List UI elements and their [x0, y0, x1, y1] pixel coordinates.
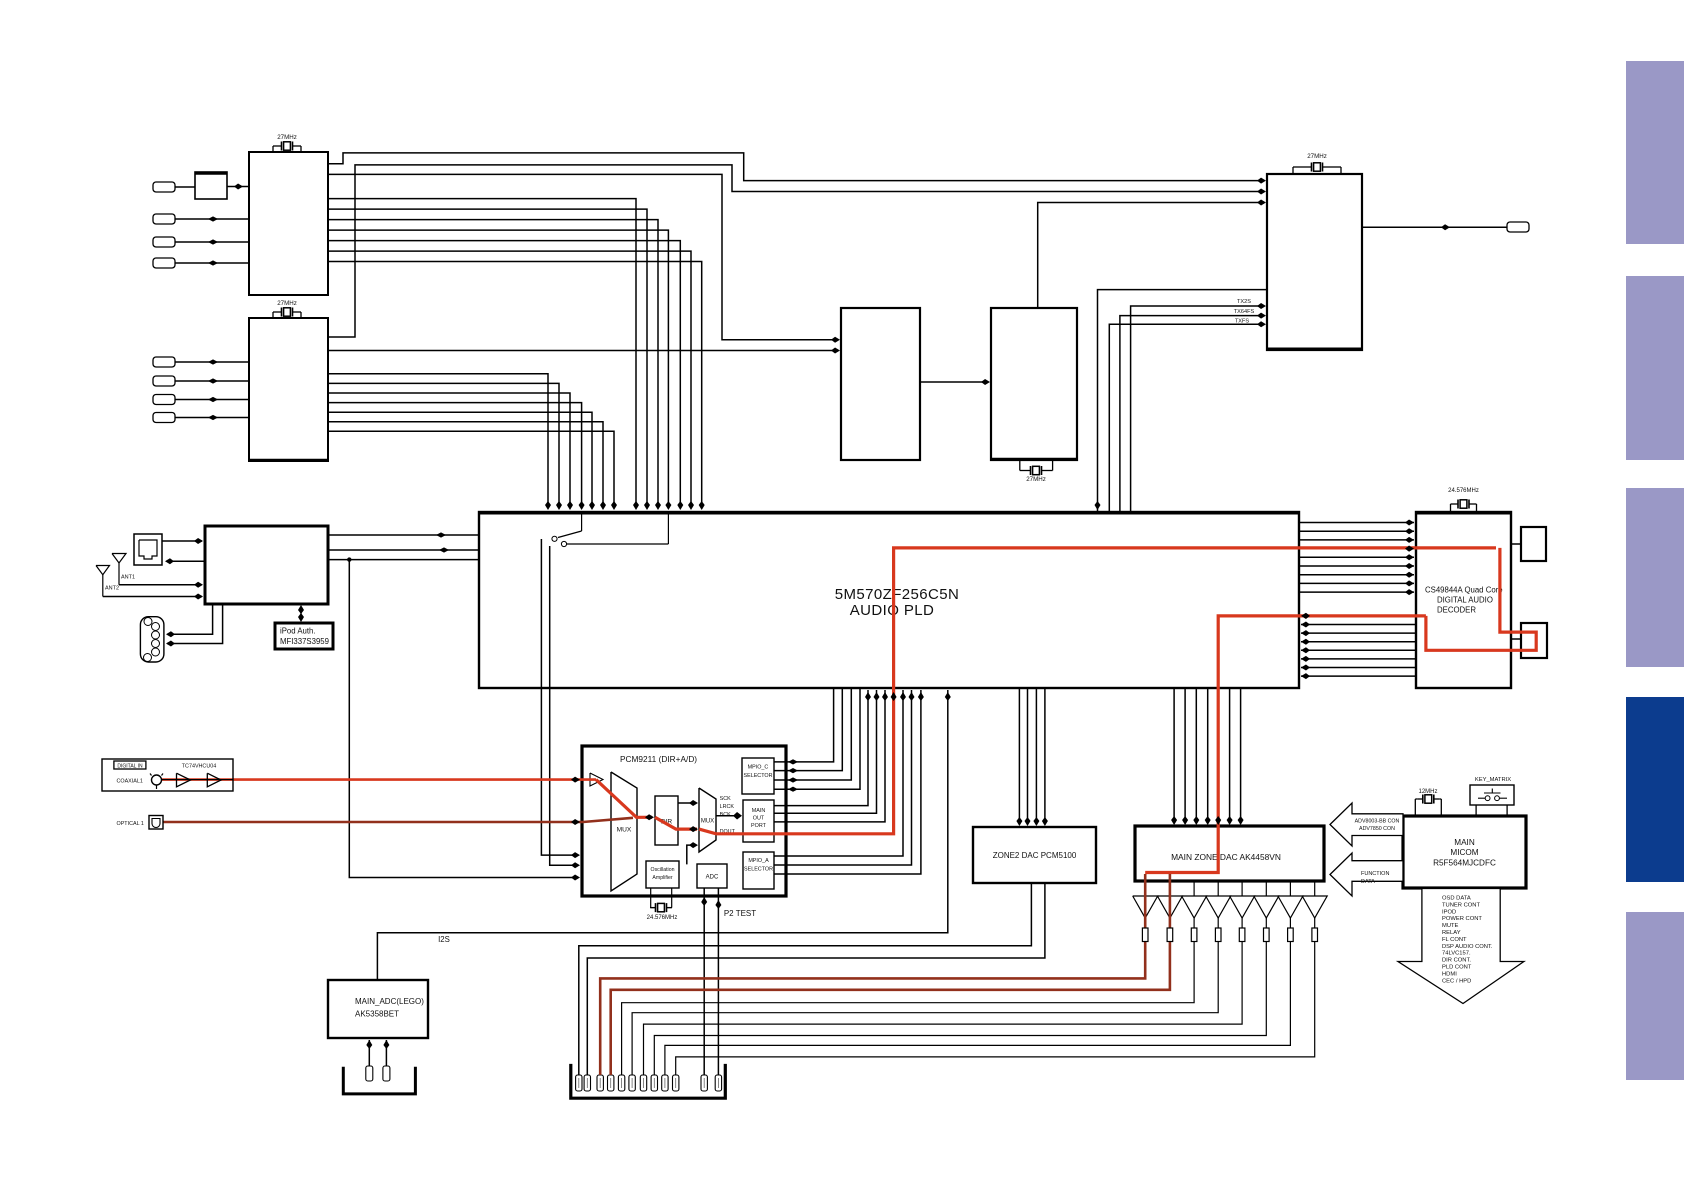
wire bus-A line 4 [328, 230, 671, 510]
wire PLD to AK4458 line 3 [1193, 688, 1199, 825]
svg-text:DATA: DATA [1361, 879, 1375, 885]
sidebar tab 2 [1626, 276, 1684, 460]
svg-text:MUX: MUX [701, 819, 714, 825]
wire J2 to U-A [175, 216, 249, 221]
label MFI337S3959 [280, 637, 329, 646]
arrow into PCM9211 coax [571, 777, 580, 783]
svg-text:MAIN_ADC(LEGO): MAIN_ADC(LEGO) [355, 997, 424, 1006]
wire U-C to DIN pin2 [166, 604, 213, 637]
wire J3 to U-A [175, 239, 249, 244]
sidebar tab 5 [1626, 912, 1684, 1080]
wire ADC input R [383, 1040, 389, 1068]
svg-text:ANT1: ANT1 [121, 575, 135, 581]
aux box1 right of CS [1521, 527, 1546, 561]
svg-text:SELECTOR: SELECTOR [744, 773, 773, 779]
svg-text:I2S: I2S [438, 935, 450, 944]
svg-text:MPIO_A: MPIO_A [748, 858, 769, 864]
label COAXIAL1 [117, 779, 143, 785]
wire bus-B line 1 [328, 374, 551, 510]
svg-text:27MHz: 27MHz [277, 134, 297, 141]
svg-text:iPod Auth.: iPod Auth. [280, 627, 316, 636]
buffer B1 [177, 773, 191, 787]
MPIO_C SELECTOR box [742, 758, 774, 794]
svg-text:PCM9211 (DIR+A/D): PCM9211 (DIR+A/D) [620, 754, 697, 764]
wire DIR to MUX2 [678, 800, 698, 806]
svg-text:OPTICAL 1: OPTICAL 1 [117, 821, 144, 827]
label DIR [661, 819, 673, 826]
wire CS to PLD line 6 [1301, 656, 1416, 662]
arrowhead red DOUT at PLD bottom [891, 692, 897, 701]
connector pin 3 [597, 1075, 603, 1091]
connector pin 10 [673, 1075, 679, 1091]
red wire DIR to MUX2 [655, 817, 698, 832]
DSP U-CS CS49844A [1415, 512, 1512, 688]
wire PLD to CS line 9 [1299, 589, 1414, 595]
wire MPIO_C line 3 [774, 688, 851, 783]
svg-text:ANT2: ANT2 [105, 586, 119, 592]
connector pin 6 [629, 1075, 635, 1091]
label Oscillation Amplifier [651, 867, 675, 881]
wire MPIO_A line 3 [774, 690, 924, 874]
label DECODER [1437, 606, 1476, 615]
svg-text:AK5358BET: AK5358BET [355, 1010, 399, 1019]
svg-text:PORT: PORT [751, 823, 767, 829]
svg-text:24.576MHz: 24.576MHz [1448, 488, 1479, 494]
wire bus-A line 5 [328, 241, 683, 510]
wire U-C to PLD b [328, 547, 479, 552]
wire bus-A line 2 [328, 209, 650, 510]
red wire DOUT to CS49844A [699, 548, 1496, 834]
wire U-A pin1 to U-F [328, 153, 1266, 184]
wire bus-B line 5 [328, 412, 595, 510]
wire J6 to U-B [175, 378, 249, 383]
label ZONE2 DAC PCM5100 [993, 851, 1077, 860]
svg-text:R5F564MJCDFC: R5F564MJCDFC [1433, 859, 1496, 868]
red wire CS loop to aux box2 [1426, 548, 1536, 650]
ADC pin label L [366, 1066, 373, 1081]
DIGITAL IN label box [114, 761, 146, 769]
black core of coax line [161, 779, 233, 781]
label I2S [438, 935, 450, 944]
svg-text:CS49844A Quad Core: CS49844A Quad Core [1425, 586, 1503, 595]
wire U-F output to stub [1362, 224, 1507, 230]
level shifter box [195, 172, 227, 199]
label DIGITAL AUDIO [1437, 596, 1493, 605]
svg-text:OSD DATA: OSD DATA [1442, 896, 1471, 902]
wire U-F pin to PLD [1095, 290, 1268, 548]
svg-text:COAXIAL1: COAXIAL1 [117, 779, 143, 785]
connector stub J7 [153, 395, 175, 405]
wire bus-B line 6 [328, 422, 606, 510]
svg-text:MUTE: MUTE [1442, 923, 1459, 929]
wire MAIN OUT line 2 [774, 690, 880, 813]
MUX2 trapezoid [699, 788, 716, 852]
block U-C (network module) [205, 526, 328, 604]
wire ADC pin1 down [701, 888, 707, 1075]
connector stub J2 [153, 214, 175, 224]
connector pin 7 [640, 1075, 646, 1091]
wire PLD to ZONE2 line 3 [1033, 688, 1039, 826]
connector stub J9 (top right) [1507, 222, 1529, 232]
connector pin 1 [576, 1075, 582, 1091]
crystal X6 24.576MHz below PCM9211 [647, 888, 678, 921]
svg-text:FL CONT: FL CONT [1442, 937, 1467, 943]
label CS49844A Quad Core [1425, 586, 1503, 595]
wire PLD to AK4458 line 1 [1171, 688, 1177, 825]
output buffer chain 5 [644, 881, 1255, 1075]
connector stub J6 [153, 376, 175, 386]
crystal X1 27MHz [273, 134, 301, 152]
svg-text:SCK: SCK [720, 796, 731, 802]
label MAIN OUT PORT [751, 808, 767, 829]
wire MPIO_A line 1 [774, 690, 906, 856]
buffer inside PCM9211 [590, 773, 603, 786]
label MAIN_ADC(LEGO) [355, 997, 424, 1006]
resistor on buffer chain 2 [1167, 928, 1173, 942]
svg-text:MFI337S3959: MFI337S3959 [280, 637, 329, 646]
wire PLD to ZONE2 line 2 [1025, 688, 1031, 826]
wire CS to PLD line 4 [1301, 639, 1416, 645]
bottom connector housing [571, 1064, 726, 1098]
MICOM down arrow [1398, 889, 1524, 1004]
wire J8 to U-B [175, 415, 249, 420]
svg-text:HDMI: HDMI [1442, 971, 1457, 977]
wire bus-A line 7 [328, 262, 705, 511]
label DATA [1361, 879, 1375, 885]
arrowhead red line into AK4458 [1215, 816, 1221, 825]
wire U-B pin2 to U-D [328, 348, 840, 354]
MAIN_ADC connector bracket [343, 1067, 415, 1094]
svg-text:MUX: MUX [617, 827, 632, 834]
sidebar tab 3 [1626, 488, 1684, 667]
output buffer chain 7 [665, 881, 1303, 1075]
wire PLD to AK4458 line 2 [1182, 688, 1188, 825]
svg-text:24.576MHz: 24.576MHz [647, 915, 678, 921]
wire U-A pin2 to U-D [328, 174, 840, 342]
svg-text:MAIN: MAIN [752, 808, 766, 814]
KEY_MATRIX box [1470, 777, 1514, 805]
connector pin 8 [651, 1075, 657, 1091]
antenna ANT2 [96, 566, 119, 597]
wire PLD to ZONE2 line 1 [1016, 688, 1022, 826]
wire ADC to MUX2 [687, 842, 698, 864]
svg-text:DECODER: DECODER [1437, 606, 1476, 615]
FUNCTION DATA block arrow [1330, 853, 1403, 896]
connector stub J8 [153, 413, 175, 423]
label TX64FS [1234, 309, 1255, 315]
red wire CS out to AK4458 [1145, 616, 1426, 873]
output buffer chain 8 [676, 881, 1327, 1075]
connector stub J1 [153, 182, 175, 192]
svg-text:ADV8003-BB CON: ADV8003-BB CON [1355, 819, 1400, 825]
crystal X7 12MHz [1415, 789, 1441, 816]
label iPod Auth [280, 627, 316, 636]
svg-text:27MHz: 27MHz [277, 300, 297, 307]
wire RJ45 to U-C [162, 538, 203, 544]
wire CS to PLD line 5 [1301, 647, 1416, 653]
svg-text:Oscillation: Oscillation [651, 867, 675, 873]
block U-B (second receiver) [248, 318, 329, 461]
wire U-C to DIN pin3 [166, 604, 223, 647]
label MPIO_A SELECTOR [744, 858, 773, 873]
label MPIO_C SELECTOR [744, 765, 773, 780]
wire ANT1 to U-C [119, 582, 203, 588]
svg-text:CEC / HPD: CEC / HPD [1442, 978, 1471, 984]
connector stub J4 [153, 258, 175, 268]
svg-text:IPOD: IPOD [1442, 909, 1456, 915]
svg-text:ZONE2 DAC PCM5100: ZONE2 DAC PCM5100 [993, 851, 1077, 860]
svg-text:TX2S: TX2S [1237, 299, 1251, 305]
svg-text:DIR CONT.: DIR CONT. [1442, 958, 1471, 964]
connector pin 2 [584, 1075, 590, 1091]
wire U-E to U-F clock [1038, 200, 1266, 309]
svg-text:PLD CONT: PLD CONT [1442, 965, 1472, 971]
svg-text:TX64FS: TX64FS [1234, 309, 1255, 315]
svg-text:12MHz: 12MHz [1418, 789, 1437, 795]
RJ45 jack [134, 534, 162, 565]
label PCM9211 (DIR+A/D) [620, 754, 697, 764]
PLD input switch S1 [552, 513, 669, 547]
label AK5358BET [355, 1010, 399, 1019]
ADC box [697, 864, 727, 888]
svg-text:ADC: ADC [706, 875, 719, 881]
wire bus-B line 7 [328, 431, 617, 510]
svg-text:Amplifier: Amplifier [652, 875, 672, 881]
MAIN_ADC block AK5358BET [328, 980, 428, 1038]
wire MAIN OUT line 3 [774, 690, 888, 822]
wire PLD to PCM9211 in2 [550, 546, 580, 868]
wire bus-A line 1 [328, 199, 639, 510]
label MUX1 [617, 827, 632, 834]
wire bus-B line 3 [328, 393, 573, 510]
label P2 TEST [724, 909, 756, 918]
label R5F564MJCDFC [1433, 859, 1496, 868]
wire MPIO_C line 1 [774, 688, 834, 765]
label MAIN [1454, 838, 1475, 847]
antenna ANT1 [112, 554, 135, 585]
svg-text:SELECTOR: SELECTOR [744, 867, 773, 873]
svg-text:POWER CONT: POWER CONT [1442, 916, 1482, 922]
connector pin 9 [662, 1075, 668, 1091]
wire J5 to U-B [175, 359, 249, 364]
wire ZONE2 out2 to connector [587, 883, 1045, 1075]
label MUX2 [701, 819, 714, 825]
PLD U-MAIN 5M570ZF256C5N [478, 512, 1300, 688]
svg-text:MAIN ZONE DAC AK4458VN: MAIN ZONE DAC AK4458VN [1171, 852, 1281, 862]
label ADV7850 CON [1359, 826, 1395, 832]
svg-text:RELAY: RELAY [1442, 930, 1461, 936]
wire bus-A line 3 [328, 220, 661, 510]
wire J7 to U-B [175, 397, 249, 402]
key switch symbol [1478, 789, 1507, 801]
wire bus-B line 2 [328, 383, 562, 510]
wire CS to PLD line 7 [1301, 665, 1416, 671]
wire PLD to CS line 2 [1299, 528, 1414, 534]
DIGITAL IN group box [102, 759, 233, 791]
aux box2 right of CS [1521, 623, 1547, 658]
arrowhead red line into CS [1405, 546, 1414, 552]
arrow into PCM9211 optical [571, 819, 580, 825]
wire ADC pin2 down [715, 888, 721, 1075]
label TX2S [1237, 299, 1251, 305]
label MICOM [1450, 848, 1478, 857]
dark red wire connector to buffer2 [611, 874, 1170, 1075]
crystal X3 27MHz below U-E [1020, 460, 1053, 483]
ADV8003 block arrow [1330, 803, 1403, 846]
label DOUT [720, 829, 736, 835]
MAIN MICOM block [1403, 816, 1526, 888]
svg-text:P2 TEST: P2 TEST [724, 909, 756, 918]
wire PLD to PCM9211 in1 [541, 539, 580, 858]
svg-text:74LVC157.: 74LVC157. [1442, 951, 1471, 957]
svg-text:OUT: OUT [753, 816, 765, 822]
wire U-C to PLD a [328, 532, 479, 537]
label ADC [706, 875, 719, 881]
label OPTICAL 1 [117, 821, 144, 827]
block U-D (HDMI switch) [841, 308, 920, 460]
MICOM signal list [1442, 896, 1493, 985]
wire MAIN OUT line 1 [774, 690, 871, 806]
wire PLD to AK4458 line 4 [1205, 688, 1211, 825]
wire PLD to ZONE2 line 4 [1042, 688, 1048, 826]
wire bus-A line 6 [328, 251, 694, 510]
wire I2S MAIN_ADC to PLD [377, 690, 950, 980]
wire PLD to CS line 7 [1299, 572, 1414, 578]
wire CS to aux box1 [1511, 543, 1521, 545]
svg-text:ADV7850 CON: ADV7850 CON [1359, 826, 1395, 832]
wire U-D to U-E [920, 379, 990, 385]
wire U-C to RJ45 [165, 558, 205, 564]
sidebar tab 1 [1626, 61, 1684, 244]
crystal X5 24.576MHz [1448, 488, 1479, 512]
svg-text:5M570ZF256C5N: 5M570ZF256C5N [835, 586, 959, 603]
red wire coax to DIR/MUX [596, 780, 654, 821]
crystal X2 27MHz [273, 300, 301, 318]
connector pin 11 [701, 1075, 707, 1091]
block U-F (audio transmitter) [1266, 174, 1363, 350]
connector pin 4 [608, 1075, 614, 1091]
TOSLINK jack [149, 816, 163, 830]
output buffer chain 4 [632, 881, 1231, 1075]
wire PLD to CS line 5 [1299, 554, 1414, 560]
label SCK LRCK BCK [720, 796, 735, 818]
svg-text:FUNCTION: FUNCTION [1361, 871, 1389, 877]
label TC74VHCU04 [182, 763, 216, 769]
ADC pin label R [383, 1066, 390, 1081]
wire TX2S PLD to U-F [1131, 303, 1266, 511]
svg-text:MAIN: MAIN [1454, 838, 1475, 847]
block U-E (video processor) [990, 308, 1078, 460]
wire keymatrix right [1506, 805, 1508, 816]
label ADV8003-BB CON [1355, 819, 1400, 825]
wire MPIO_A line 2 [774, 690, 915, 865]
wire CS to PLD line 3 [1301, 630, 1416, 636]
connector pin 12 [715, 1075, 721, 1091]
sidebar tab 4 (active) [1626, 697, 1684, 882]
output buffer chain 3 [622, 881, 1207, 1075]
wire MPIO_C line 4 [774, 688, 860, 792]
buffer B2 [207, 773, 221, 787]
svg-text:LRCK: LRCK [720, 804, 735, 810]
wire J1 to level box [175, 186, 195, 188]
wire U-C to iPod bidirectional [298, 605, 304, 622]
svg-text:DIGITAL IN: DIGITAL IN [117, 763, 143, 769]
wire ANT2 to U-C [103, 594, 203, 600]
wire TXFS PLD to U-F [1109, 321, 1266, 511]
svg-text:DIGITAL AUDIO: DIGITAL AUDIO [1437, 596, 1493, 605]
resistor on buffer chain 1 [1142, 928, 1148, 942]
PCM9211 U-P (DIR+A/D) [582, 746, 786, 896]
MAIN OUT PORT box [743, 800, 774, 842]
svg-text:27MHz: 27MHz [1026, 476, 1046, 483]
wire PLD to AK4458 line 5 [1227, 688, 1233, 825]
ZONE2 DAC PCM5100 block [973, 827, 1096, 883]
block U-A (top-left receiver) [249, 152, 328, 295]
connector pin 5 [618, 1075, 624, 1091]
label 5M570ZF256C5N [835, 586, 959, 603]
wire ZONE2 out1 to connector [579, 883, 1032, 1075]
red wire coaxial feed [161, 778, 596, 781]
svg-text:DSP AUDIO CONT.: DSP AUDIO CONT. [1442, 944, 1493, 950]
output buffer chain 2 [1157, 881, 1182, 918]
wire PLD to CS line 4 [1299, 546, 1414, 552]
wire PLD to CS line 6 [1299, 563, 1414, 569]
wire keymatrix left [1475, 805, 1477, 816]
wire PLD to AK4458 line 6 [1238, 688, 1244, 825]
MAIN ZONE DAC AK4458VN block [1135, 826, 1324, 881]
crystal X4 27MHz [1293, 153, 1341, 174]
wire CS to PLD line 8 [1301, 673, 1416, 679]
wire J4 to U-A [175, 260, 249, 265]
wire branch down to PCM9211 [349, 560, 580, 881]
output buffer chain 6 [654, 881, 1279, 1075]
svg-text:TC74VHCU04: TC74VHCU04 [182, 763, 216, 769]
iPod Auth box [275, 623, 333, 649]
MUX1 trapezoid [611, 772, 637, 891]
label TXFS [1235, 319, 1250, 325]
dark red wire connector to buffer1 [600, 874, 1145, 1075]
svg-text:27MHz: 27MHz [1307, 153, 1327, 160]
wire TX64FS PLD to U-F [1120, 313, 1266, 511]
wire PLD to CS line 8 [1299, 580, 1414, 586]
wire PLD to CS line 1 [1299, 520, 1414, 526]
wire ADC input L [366, 1040, 372, 1068]
wire CS to PLD line 2 [1301, 622, 1416, 628]
label MAIN ZONE DAC AK4458VN [1171, 852, 1281, 862]
wire U-B pin1 to U-F [328, 165, 1266, 337]
wire bus-B line 4 [328, 403, 585, 510]
svg-text:TUNER CONT: TUNER CONT [1442, 902, 1480, 908]
wire MPIO_C line 2 [774, 688, 842, 773]
connector stub J3 [153, 237, 175, 247]
svg-text:MPIO_C: MPIO_C [748, 765, 769, 771]
MPIO_A SELECTOR box [743, 852, 774, 889]
connector stub J5 [153, 357, 175, 367]
output buffer chain 1 [1133, 881, 1158, 918]
label FUNCTION [1361, 871, 1389, 877]
wire MUX2 to MAIN OUT [716, 812, 742, 820]
DIR box [655, 796, 678, 845]
DIN connector [140, 617, 164, 662]
wire PLD to CS line 3 [1299, 537, 1414, 543]
RCA jack symbol [150, 774, 163, 790]
dark red wire optical feed [163, 818, 633, 822]
svg-text:MICOM: MICOM [1450, 848, 1478, 857]
arrowhead red line into PLD right [1301, 613, 1310, 619]
wire U-C to PLD c with branch [328, 557, 479, 561]
label AUDIO PLD [850, 602, 934, 619]
Oscillation Amplifier box [646, 861, 679, 888]
